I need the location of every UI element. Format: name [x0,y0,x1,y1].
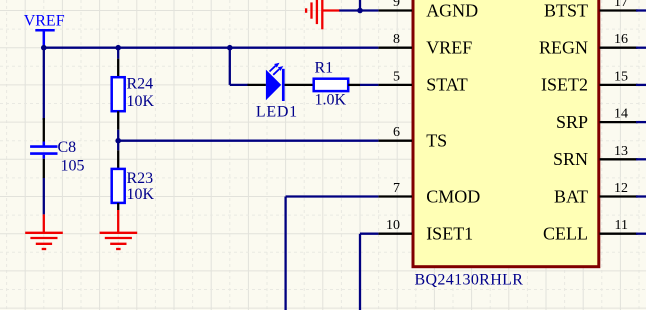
wire R1 to STAT pin [360,84,378,86]
pin 6 TS [378,125,447,150]
pin 7 CMOD [378,181,480,206]
resistor R1 1.0K [314,59,360,108]
wire LED branch vertical [229,48,231,85]
svg-text:VREF: VREF [426,38,472,58]
svg-text:12: 12 [614,181,628,196]
wire LED branch horizontal [230,84,249,86]
pin 5 STAT [378,69,467,94]
svg-text:5: 5 [393,69,400,84]
wire stub pin 15 [636,84,646,86]
svg-text:STAT: STAT [426,75,468,95]
svg-text:6: 6 [393,125,400,140]
pin 12 BAT [554,181,638,206]
pin 16 REGN [539,32,638,57]
wire VREF to C8 [43,48,45,120]
svg-text:BQ24130RHLR: BQ24130RHLR [415,272,524,289]
ground symbol (C8) [25,214,63,249]
svg-text:13: 13 [614,144,628,159]
wire stub pin 14 [636,121,646,123]
pin 15 ISET2 [541,69,638,94]
wire R24 top lead [117,48,119,59]
svg-text:LED1: LED1 [256,104,298,121]
svg-text:R23: R23 [127,170,154,187]
resistor R24 10K [112,59,155,130]
svg-text:R1: R1 [315,59,334,76]
wire VREF horizontal [44,47,379,49]
pin 17 BTST [544,0,638,20]
ground symbol (AGND, rotated left) [306,0,340,29]
pin 13 SRN [553,144,638,169]
svg-text:CELL: CELL [543,224,588,244]
svg-text:14: 14 [614,107,628,122]
wire stub pin 13 [636,158,646,160]
wire AGND [339,9,378,11]
svg-text:ISET2: ISET2 [541,75,588,95]
svg-text:9: 9 [393,0,400,10]
node junction R24/R23/TS [115,138,121,144]
pin 10 ISET1 [378,218,473,243]
capacitor C8 105 [30,118,84,214]
pin 14 SRP [556,107,638,132]
power port VREF [24,13,65,48]
node junction VREF/LED branch [227,45,233,51]
svg-text:105: 105 [61,157,85,174]
svg-text:R24: R24 [127,76,154,93]
svg-text:8: 8 [393,32,400,47]
svg-text:1.0K: 1.0K [315,92,347,109]
svg-text:16: 16 [614,32,628,47]
svg-text:BTST: BTST [544,0,588,20]
node junction VREF/C8 [41,45,47,51]
wire stub pin 12 [636,195,646,197]
svg-text:CMOD: CMOD [426,186,480,206]
resistor R23 10K [112,141,155,210]
svg-text:15: 15 [614,69,628,84]
svg-text:SRP: SRP [556,112,588,132]
pin 8 VREF [378,32,472,57]
wire CMOD net [286,197,379,310]
wire TS net [118,140,378,142]
pin 9 AGND [378,0,478,20]
svg-text:TS: TS [426,131,447,151]
wire stub pin 16 [636,47,646,49]
node junction AGND [357,8,363,14]
node junction VREF/R24 [115,45,121,51]
IC U1 BQ24130RHLR body [413,0,599,289]
svg-text:17: 17 [614,0,628,10]
svg-text:11: 11 [615,218,628,233]
svg-text:AGND: AGND [426,0,478,20]
wire stub pin 11 [636,233,646,235]
svg-text:10: 10 [386,218,400,233]
svg-text:10K: 10K [127,186,155,203]
svg-text:7: 7 [393,181,400,196]
svg-text:SRN: SRN [553,149,588,169]
LED LED1 [248,63,314,121]
svg-text:10K: 10K [127,93,155,110]
svg-text:VREF: VREF [24,13,65,30]
svg-text:C8: C8 [58,139,77,156]
svg-text:ISET1: ISET1 [426,224,473,244]
svg-text:REGN: REGN [539,38,588,58]
pin 11 CELL [543,218,638,243]
wire AGND stub up [359,0,361,11]
wire stub pin 17 [636,9,646,11]
svg-text:BAT: BAT [554,186,588,206]
ground symbol (R23) [100,210,138,249]
wire ISET1 net [360,234,378,310]
wire R24 bottom lead [117,130,119,141]
